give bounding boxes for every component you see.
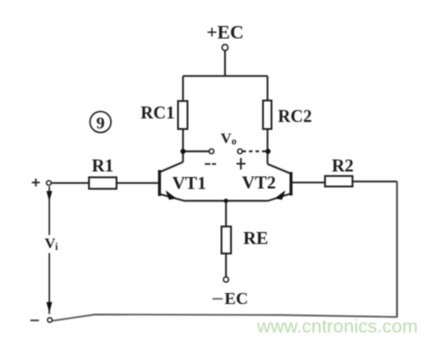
svg-text:VT1: VT1 [172, 173, 206, 193]
svg-text:R1: R1 [92, 155, 114, 175]
svg-text:www.cntronics.com: www.cntronics.com [256, 315, 418, 336]
svg-text:V: V [221, 131, 232, 147]
svg-text:EC: EC [224, 289, 248, 308]
svg-text:+EC: +EC [206, 22, 243, 43]
svg-text:RE: RE [243, 228, 268, 248]
svg-text:o: o [232, 137, 237, 148]
svg-text:VT2: VT2 [242, 172, 276, 192]
svg-text:R2: R2 [332, 156, 354, 176]
svg-text:V: V [45, 236, 56, 252]
svg-text:RC1: RC1 [141, 103, 175, 123]
svg-text:9: 9 [96, 114, 105, 133]
svg-text:i: i [55, 242, 58, 253]
svg-text:RC2: RC2 [278, 106, 312, 126]
